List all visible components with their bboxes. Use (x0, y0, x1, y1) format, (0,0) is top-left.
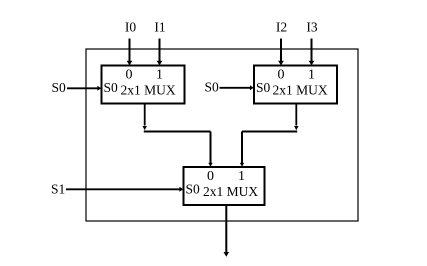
wire I2 to U2 pin0 (280, 39, 282, 62)
svg-text:1: 1 (308, 68, 315, 83)
wire S0 to U2 (220, 87, 251, 89)
svg-text:I1: I1 (154, 20, 165, 35)
svg-text:I0: I0 (125, 20, 136, 35)
wire U3 output (225, 206, 227, 253)
wire I1 to U1 pin1 (159, 39, 161, 62)
svg-text:S1: S1 (51, 182, 65, 197)
svg-text:0: 0 (278, 68, 285, 83)
mux U2 (top-right 2x1 MUX) (254, 66, 337, 104)
wire U1 output down (144, 104, 146, 126)
wire S0 to U1 (67, 87, 98, 89)
svg-text:1: 1 (238, 169, 245, 184)
mux U1 (top-left 2x1 MUX) (102, 66, 185, 104)
wire U1 elbow horizontal (144, 131, 211, 133)
svg-text:0: 0 (207, 169, 214, 184)
svg-text:2x1 MUX: 2x1 MUX (273, 83, 328, 98)
svg-text:2x1 MUX: 2x1 MUX (121, 83, 176, 98)
svg-text:I3: I3 (306, 20, 317, 35)
svg-text:S0: S0 (104, 80, 119, 95)
svg-text:0: 0 (126, 68, 133, 83)
wire U2 output down (295, 104, 297, 126)
svg-text:1: 1 (156, 68, 163, 83)
outer enclosure box (86, 49, 358, 221)
wire I3 to U2 pin1 (311, 39, 313, 62)
wire U2 elbow horizontal (242, 131, 297, 133)
svg-text:S0: S0 (52, 80, 67, 95)
mux U3 (bottom 2x1 MUX) (184, 167, 265, 205)
svg-text:2x1 MUX: 2x1 MUX (203, 184, 258, 199)
wire drop to U3 pin1 (241, 132, 243, 164)
svg-text:S0: S0 (205, 80, 220, 95)
wire S1 to U3 (66, 188, 180, 190)
svg-text:S0: S0 (186, 182, 201, 197)
svg-text:S0: S0 (256, 80, 271, 95)
wire drop to U3 pin0 (210, 132, 212, 164)
wire I0 to U1 pin0 (129, 39, 131, 62)
svg-text:I2: I2 (276, 20, 287, 35)
